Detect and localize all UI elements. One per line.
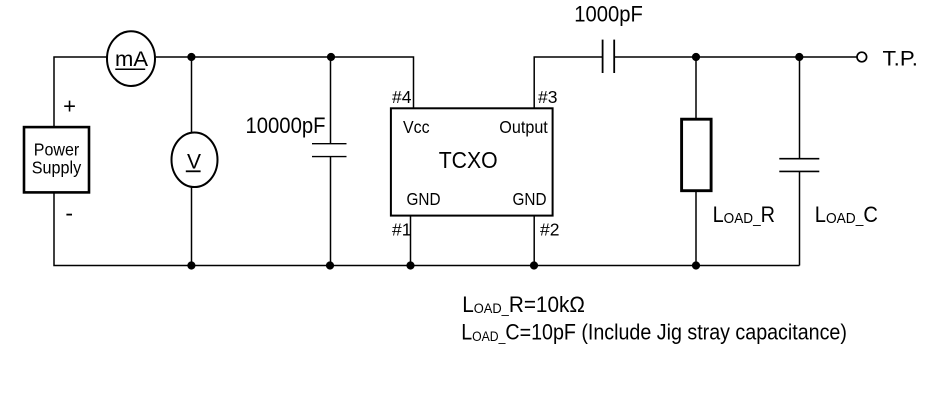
svg-text:-: - (65, 200, 73, 226)
svg-text:1000pF: 1000pF (574, 2, 643, 27)
svg-text:Output: Output (499, 117, 548, 137)
svg-text:Supply: Supply (32, 158, 82, 178)
svg-text:#2: #2 (540, 220, 559, 240)
svg-text:10000pF: 10000pF (246, 113, 326, 138)
svg-text:LOAD_C=10pF (Include Jig stray: LOAD_C=10pF (Include Jig stray capacitan… (461, 321, 847, 345)
svg-text:Vcc: Vcc (403, 117, 430, 137)
svg-text:+: + (63, 94, 76, 119)
svg-text:#1: #1 (392, 220, 411, 240)
svg-text:GND: GND (407, 189, 441, 209)
svg-text:GND: GND (513, 189, 547, 209)
svg-text:TCXO: TCXO (439, 147, 498, 173)
svg-text:#3: #3 (538, 87, 557, 107)
svg-text:T.P.: T.P. (883, 48, 919, 71)
svg-text:#4: #4 (392, 87, 412, 107)
svg-text:V: V (187, 150, 201, 173)
svg-text:mA: mA (115, 48, 148, 71)
